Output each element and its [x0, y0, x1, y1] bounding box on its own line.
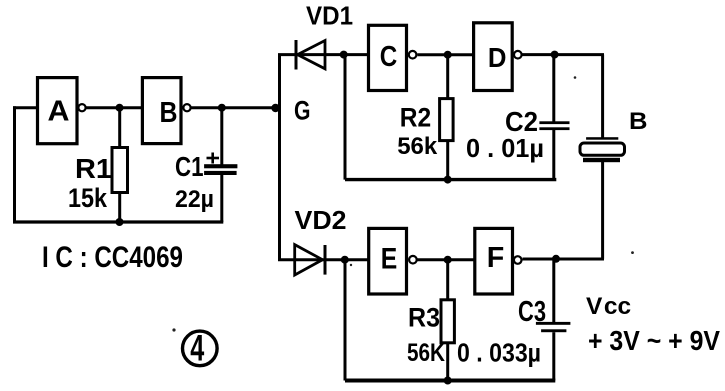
diode VD2 [278, 245, 345, 275]
svg-text:R1: R1 [75, 153, 112, 184]
svg-text:G: G [294, 96, 311, 126]
wire left feedback vertical [13, 106, 16, 222]
inverter E [369, 228, 417, 294]
node VD2 output junction [341, 256, 349, 264]
svg-text:C1: C1 [175, 151, 204, 182]
node G vertical bus [278, 55, 281, 260]
wire VD1 to C input [344, 53, 369, 56]
svg-text:0 . 033µ: 0 . 033µ [457, 338, 541, 368]
wire mid rail horizontal [345, 178, 556, 181]
svg-text:56K: 56K [407, 339, 445, 367]
svg-text:15k: 15k [68, 183, 108, 213]
wire E output to F input [418, 258, 475, 261]
capacitor C1 [204, 108, 237, 222]
svg-text:R3: R3 [408, 303, 440, 333]
svg-text:0 . 01µ: 0 . 01µ [466, 133, 544, 163]
inverter A [38, 78, 86, 144]
svg-text:C: C [380, 41, 398, 73]
node A-out/R1 junction [116, 104, 124, 112]
label figure number 4 [183, 328, 218, 369]
svg-text:22µ: 22µ [175, 186, 214, 213]
wire B output to node G [192, 106, 280, 109]
svg-text:VD2: VD2 [295, 205, 347, 235]
svg-text:B: B [629, 108, 648, 135]
diode VD1 [278, 40, 344, 70]
wire bottom-left rail [13, 220, 223, 223]
svg-text:+ 3V ~ + 9V: + 3V ~ + 9V [588, 325, 721, 356]
capacitor C3 [536, 259, 571, 381]
node R2 bottom junction [444, 176, 452, 184]
resistor R3 [441, 260, 454, 381]
wire mid rail vertical from VD1 node [344, 55, 347, 180]
scan speckle dots [172, 328, 175, 331]
node F-out/C3 junction [552, 255, 560, 263]
node C-out/R2 junction [444, 51, 452, 59]
node G junction [271, 104, 279, 112]
capacitor C2 [539, 55, 569, 180]
inverter B [142, 78, 190, 144]
inverter D [474, 23, 522, 91]
wire VD2 to E input [345, 258, 369, 261]
wire D output to buzzer corner [523, 53, 605, 56]
node R1 bottom junction [116, 218, 124, 226]
node E-out/R3 junction [444, 256, 452, 264]
resistor R2 [440, 55, 454, 180]
node VD1 output junction [340, 51, 348, 59]
label C1 polarity plus [207, 153, 220, 164]
wire C output to D input [418, 53, 474, 56]
svg-text:D: D [488, 42, 507, 73]
node R3 bottom junction [444, 377, 452, 385]
inverter C [369, 25, 417, 90]
node B-out/C1 junction [218, 104, 226, 112]
svg-text:Vcc: Vcc [586, 293, 631, 320]
buzzer B [580, 55, 625, 259]
wire A input [13, 106, 38, 109]
resistor R1 [112, 108, 128, 222]
svg-text:56k: 56k [397, 133, 438, 160]
svg-text:A: A [48, 96, 70, 128]
svg-text:R2: R2 [400, 102, 431, 132]
svg-text:F: F [487, 242, 505, 274]
inverter F [475, 228, 522, 294]
wire A output to B input [87, 106, 144, 109]
svg-text:I C : CC4069: I C : CC4069 [42, 241, 183, 274]
wire F output to buzzer corner [523, 258, 605, 261]
svg-text:E: E [381, 242, 398, 275]
wire bottom rail horizontal [345, 379, 555, 383]
svg-text:VD1: VD1 [306, 1, 353, 31]
svg-text:B: B [160, 97, 178, 129]
svg-text:C3: C3 [518, 296, 546, 328]
node D-out/C2 junction [551, 51, 559, 59]
wire bottom rail vertical from VD2 node [344, 260, 347, 381]
svg-text:4: 4 [190, 328, 204, 369]
